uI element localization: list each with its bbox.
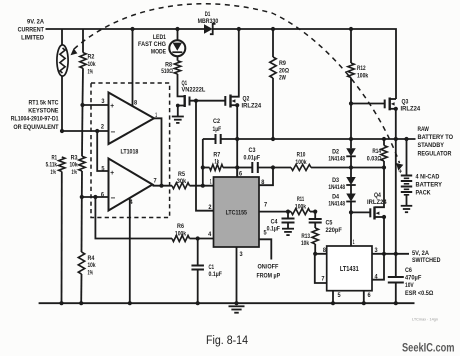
svg-text:Q2: Q2 [243,95,250,102]
svg-text:10k: 10k [69,161,77,168]
wire op-amp B pin4 to ground rail [129,198,131,304]
svg-text:2W: 2W [279,75,287,82]
svg-text:C6: C6 [405,267,412,274]
wire C2/R7 left leg [202,139,204,186]
svg-text:8: 8 [134,100,138,107]
svg-text:1N4148: 1N4148 [328,155,345,162]
diode D3 1N4148 [346,177,356,185]
svg-text:MBR330: MBR330 [198,18,219,25]
svg-text:1µF: 1µF [212,126,221,133]
svg-text:1N4148: 1N4148 [328,201,345,208]
wire gate drive node [190,100,226,102]
node gate drive [194,99,198,103]
svg-text:RL1004-2910-97-D1: RL1004-2910-97-D1 [11,116,59,123]
node R2/R3 junction [80,103,84,107]
wire pin6 - input op-amp B [82,196,109,198]
wire op-amp A pin8 to rail [132,29,134,106]
wire LT1431 pin8 stub [315,254,327,283]
regulator U3 LT1431 [327,246,372,291]
svg-text:1: 1 [210,179,212,186]
wire ground rail [39,302,415,304]
capacitor C3 0.01uF [237,167,252,169]
svg-text:R14: R14 [372,148,381,155]
capacitor C2 1uF [215,134,217,144]
svg-text:STANDBY: STANDBY [418,142,445,149]
resistor R2 [82,29,84,53]
svg-text:D4: D4 [332,194,339,201]
svg-text:LTC1155: LTC1155 [226,210,248,217]
svg-text:RAW: RAW [418,126,430,133]
wire pin3 + input op-amp A [83,104,109,106]
svg-text:10V: 10V [405,282,414,289]
diode D4 1N4148 [346,194,356,202]
svg-text:1%: 1% [71,169,77,176]
svg-text:3: 3 [240,251,244,258]
svg-text:7: 7 [154,178,158,185]
wire pin6 node to R6 [95,197,172,239]
resistor R14 0.03 ohm [382,137,386,141]
diode D2 1N4148 [349,137,353,141]
svg-text:KEYSTONE: KEYSTONE [28,108,59,115]
wire comparator output node [153,185,173,187]
svg-text:100k: 100k [295,204,307,211]
battery 4 NI-CAD pack [404,137,408,141]
thermistor RT1 [61,29,63,45]
node Q2 source [235,103,239,107]
svg-text:LTCmax · 14gn: LTCmax · 14gn [412,317,438,322]
svg-text:1: 1 [353,239,355,246]
op-amp U1B LT1018 bottom [109,159,153,211]
svg-text:SeekIC.com: SeekIC.com [402,341,455,355]
resistor R6 100k [172,236,190,242]
wire LT1431 pin5 pin6 stubs [332,291,334,304]
svg-text:RT1 5k NTC: RT1 5k NTC [28,100,58,107]
node Q3 source [394,107,398,111]
svg-text:4 NI-CAD: 4 NI-CAD [416,174,440,181]
node outputs tied [159,184,163,188]
resistor R1 [59,157,65,172]
wire LTC1155 pin6 stub [236,168,238,178]
svg-text:1%: 1% [88,269,94,276]
transistor Q1 VN2222L [178,74,185,96]
svg-text:5: 5 [338,292,342,299]
svg-text:20Ω: 20Ω [279,67,289,74]
wire C2 sense line [203,138,216,140]
svg-text:0.03Ω: 0.03Ω [367,156,382,163]
node Q2 source / sense line [235,137,239,141]
svg-text:100k: 100k [295,159,307,166]
svg-text:Fig. 8-14: Fig. 8-14 [206,335,249,347]
ground main rail [229,306,245,312]
svg-text:3: 3 [101,98,105,105]
svg-text:R12: R12 [357,65,366,72]
diode D1 MBR330 [204,24,213,33]
node D2/D3 sense tap [349,165,353,169]
resistor R4 [81,197,83,252]
resistor R7 1k [203,167,210,169]
svg-text:LED1: LED1 [153,34,166,41]
node pin6/R6 tie [93,195,97,199]
svg-text:1%: 1% [88,69,94,76]
svg-text:R7: R7 [213,151,220,158]
svg-text:2: 2 [101,124,105,131]
wire LTC1155 pin5 ON/OFF [259,239,271,259]
wire pin7 line [259,211,291,213]
wire Q3 source / battery column [395,109,397,254]
resistor R9 20 ohm 2W [272,29,274,57]
svg-text:OR EQUIVALENT: OR EQUIVALENT [13,124,58,131]
svg-text:6: 6 [368,292,372,299]
LED1 fast charge indicator [177,29,179,40]
svg-text:6: 6 [101,192,105,199]
op-amp U1A LT1018 top [109,93,155,145]
svg-text:R2: R2 [88,53,95,60]
svg-text:R4: R4 [88,255,95,262]
svg-text:ESR <0.5Ω: ESR <0.5Ω [405,290,433,297]
transistor Q2 IRLZ24 [224,96,226,106]
svg-text:5: 5 [101,166,105,173]
svg-text:100k: 100k [357,73,369,80]
svg-text:0.01µF: 0.01µF [244,155,261,162]
wire LTC1155 pin8 hook [259,168,273,186]
svg-text:C2: C2 [213,118,220,125]
svg-text:1k: 1k [214,159,219,166]
svg-text:C3: C3 [249,147,256,154]
resistor R12 100k [350,29,352,63]
wire op-amp A output pin1 [154,118,162,185]
ground C4 [282,229,294,235]
svg-text:C5: C5 [326,220,333,227]
svg-text:IRLZ24: IRLZ24 [242,102,262,109]
svg-text:IRLZ24: IRLZ24 [401,106,421,113]
op-amp U2 LTC1155 [214,177,260,247]
resistor R8 510 ohm [174,61,180,74]
svg-text:IRLZ24: IRLZ24 [367,199,387,206]
svg-text:10k: 10k [301,240,309,247]
transistor Q3 IRLZ24 [351,103,385,105]
node R3/R4 junction [80,195,84,199]
svg-text:510Ω: 510Ω [161,68,173,75]
node pin8 tap [271,165,275,169]
node R5/feedback [201,184,205,188]
resistor R5 30k [172,183,190,189]
svg-text:FAST CHG: FAST CHG [138,41,166,48]
svg-text:D3: D3 [332,177,339,184]
svg-text:R5: R5 [178,171,185,178]
svg-text:LIMITED: LIMITED [21,35,44,42]
svg-text:7: 7 [321,276,325,283]
transistor Q4 IRLZ24 [351,211,370,213]
svg-text:LT1431: LT1431 [340,266,359,273]
svg-text:C4: C4 [271,219,278,226]
svg-text:6: 6 [239,171,243,178]
svg-text:30k: 30k [177,178,187,185]
svg-text:ON/OFF: ON/OFF [258,264,279,271]
ground Q1 source [172,117,184,123]
svg-text:BATTERY: BATTERY [416,182,443,189]
capacitor C6 470uF [395,254,397,277]
resistor R10 100k [291,165,311,171]
ground battery [401,206,413,212]
svg-text:220pF: 220pF [326,227,342,234]
svg-text:PACK: PACK [416,190,431,197]
svg-text:2: 2 [208,204,212,211]
resistor R11 100k [291,209,310,215]
svg-text:VN2222L: VN2222L [182,87,206,94]
wire LT1431 pin4 hook [372,254,384,280]
dashed box LT1018 package [91,83,170,218]
svg-text:10k: 10k [88,262,96,269]
dashed thermal coupling arc RT1 to battery [74,4,400,163]
svg-text:Q3: Q3 [402,98,409,105]
node pin2/pin5 tie [95,129,99,133]
svg-text:BATTERY TO: BATTERY TO [418,134,454,141]
wire LTC1155 pin3 to ground rail [236,247,238,303]
svg-text:1N4148: 1N4148 [328,184,345,191]
svg-text:SWITCHED: SWITCHED [412,257,441,264]
svg-text:C1: C1 [209,264,215,271]
svg-text:FROM µP: FROM µP [257,273,281,280]
svg-text:0.1µF: 0.1µF [209,271,222,278]
node LT1431 pins 7/8 [313,252,317,256]
svg-text:1%: 1% [50,169,56,176]
svg-text:D1: D1 [205,11,211,18]
svg-text:R6: R6 [177,223,184,230]
wire LT1431 pin3 5V output [372,253,409,255]
resistor R13 10k [312,228,318,244]
node D4/Q4 gate [349,210,353,214]
wire pin2 - input op-amp A [62,130,109,132]
node Q4 source [382,215,386,219]
node R12/Q3 gate [349,101,353,105]
svg-text:D2: D2 [332,148,339,155]
capacitor C1 0.1uF [196,236,200,240]
svg-text:10k: 10k [88,61,96,68]
svg-text:470µF: 470µF [405,275,421,282]
svg-text:MODE: MODE [151,49,167,56]
svg-text:CURRENT: CURRENT [18,27,44,34]
capacitor C4 0.1uF [287,212,289,219]
svg-text:7: 7 [264,202,268,209]
svg-text:R11: R11 [297,196,305,203]
svg-text:LT1018: LT1018 [121,148,139,155]
svg-text:8: 8 [261,179,265,186]
svg-text:R9: R9 [279,60,286,67]
resistor R3 [81,105,84,156]
svg-text:5.11k: 5.11k [46,161,58,168]
svg-text:4: 4 [208,231,212,238]
svg-text:R10: R10 [297,152,306,159]
wire pin5 + input op-amp B [97,131,108,171]
svg-text:−: − [111,128,116,137]
svg-text:100k: 100k [175,230,187,237]
wire top 9V rail [46,28,205,30]
svg-text:+: + [110,101,114,110]
svg-text:9V. 2A: 9V. 2A [27,19,44,26]
svg-text:REGULATOR: REGULATOR [418,150,452,157]
svg-text:−: − [111,194,116,203]
svg-text:+: + [110,168,114,177]
svg-text:0.1µF: 0.1µF [267,226,280,233]
capacitor C5 220pF [314,212,316,219]
node RT1/R1 junction [60,129,64,133]
svg-text:R13: R13 [301,233,310,240]
